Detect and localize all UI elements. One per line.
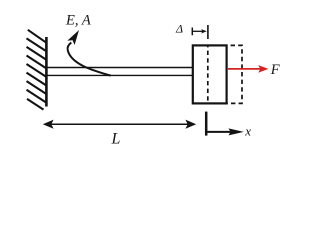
end block displaced (dashed): [208, 45, 242, 103]
origin axis vertical line: [205, 112, 208, 136]
bar top line: [47, 67, 193, 69]
delta dimension arrow: [192, 30, 203, 32]
wall hatching: [27, 30, 47, 110]
bar bottom line: [47, 74, 193, 76]
svg-text:F: F: [270, 62, 280, 78]
svg-text:x: x: [244, 124, 251, 139]
delta dimension left tick: [191, 28, 193, 36]
force arrow F (red): [227, 68, 262, 70]
x axis arrow: [206, 131, 231, 133]
delta dimension right tick: [207, 25, 209, 39]
svg-text:Δ: Δ: [175, 22, 183, 36]
length dimension double arrow: [51, 123, 188, 125]
curved arrow head: [67, 30, 79, 45]
fixed wall line: [45, 37, 48, 107]
svg-text:L: L: [111, 130, 121, 147]
curved leader arrow to E,A: [68, 43, 111, 76]
end block (solid, original position): [193, 45, 227, 103]
svg-text:E, A: E, A: [65, 13, 91, 29]
